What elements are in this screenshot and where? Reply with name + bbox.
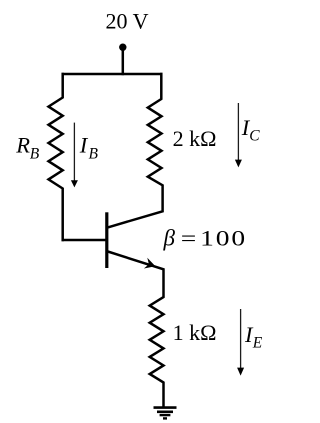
svg-text:20 V: 20 V bbox=[106, 8, 149, 33]
svg-text:C: C bbox=[249, 128, 260, 145]
svg-text:R: R bbox=[15, 133, 30, 158]
svg-text:I: I bbox=[79, 133, 89, 158]
svg-text:=: = bbox=[181, 227, 197, 251]
svg-text:β: β bbox=[163, 226, 176, 251]
svg-text:B: B bbox=[30, 146, 40, 163]
svg-text:2 kΩ: 2 kΩ bbox=[173, 126, 217, 151]
svg-text:E: E bbox=[252, 335, 263, 352]
svg-text:100: 100 bbox=[200, 227, 247, 251]
svg-text:B: B bbox=[89, 146, 99, 163]
svg-text:1 kΩ: 1 kΩ bbox=[173, 320, 217, 345]
